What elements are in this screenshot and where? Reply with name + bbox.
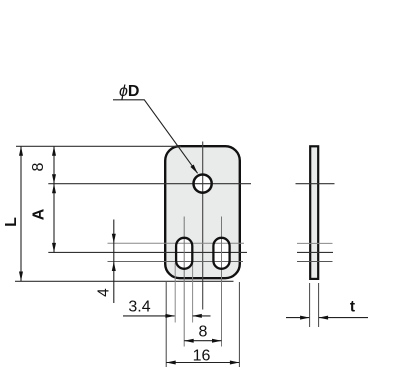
leader line phi-D xyxy=(113,100,198,174)
slot centerline left xyxy=(183,217,185,347)
side view plate xyxy=(310,146,318,279)
plate front view body xyxy=(165,146,240,278)
slot left outline xyxy=(176,238,192,269)
svg-text:8: 8 xyxy=(30,162,47,171)
slot left interior xyxy=(175,237,193,270)
slot bottom-arc extension line xyxy=(108,261,244,263)
dimension 8 (bottom) line xyxy=(184,340,221,342)
slot centerline right xyxy=(221,217,223,347)
hole interior xyxy=(192,173,212,193)
plate edge extension lines (16) xyxy=(165,282,167,367)
svg-text:t: t xyxy=(350,299,355,316)
top extension line xyxy=(16,145,181,147)
dimension t line xyxy=(286,317,309,319)
dimension 16 line xyxy=(166,362,239,364)
slot edge extension lines (3.4) xyxy=(174,263,176,323)
svg-text:16: 16 xyxy=(193,348,211,365)
slot right outline xyxy=(213,238,229,269)
dimension A line xyxy=(53,184,55,253)
slot top-arc extension line xyxy=(108,242,245,244)
plate vertical centerline xyxy=(202,142,204,310)
hole center extension line xyxy=(48,183,251,185)
side view slot lines xyxy=(297,242,333,244)
bottom extension line (L) xyxy=(15,280,234,282)
dimension 8 (top) line xyxy=(53,146,55,183)
dimension 4 line xyxy=(113,220,115,304)
svg-text:3.4: 3.4 xyxy=(128,299,150,316)
svg-text:L: L xyxy=(3,217,20,227)
svg-text:ϕD: ϕD xyxy=(119,83,139,100)
slot right interior xyxy=(212,237,230,270)
t extension lines xyxy=(309,283,311,327)
dimension 3.4 line xyxy=(123,315,175,317)
slot center extension line xyxy=(48,251,247,253)
dimension L line xyxy=(20,146,22,281)
side view hole line xyxy=(296,183,335,185)
svg-text:A: A xyxy=(31,208,48,220)
svg-text:8: 8 xyxy=(199,324,208,341)
hole phi-D outline xyxy=(194,175,212,193)
svg-text:4: 4 xyxy=(96,288,113,297)
